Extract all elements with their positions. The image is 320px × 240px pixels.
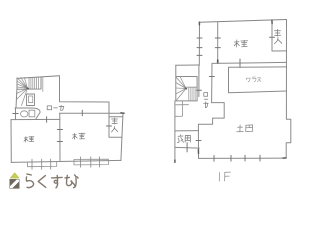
room1 top wall xyxy=(11,118,60,120)
ticks washitsu left wall xyxy=(215,38,220,48)
oshiire door tick xyxy=(106,125,111,127)
logo text rakusumu xyxy=(26,174,78,188)
label doma xyxy=(237,125,253,132)
terrace room xyxy=(229,67,287,93)
toilet room walls xyxy=(15,108,40,120)
wire top wall right plan xyxy=(200,20,287,23)
oshiire left wall upper xyxy=(108,102,110,117)
dark joint blobs xyxy=(27,20,286,162)
washitsu bottom wall xyxy=(212,62,287,63)
corridor door tick xyxy=(81,110,83,116)
doma zigzag boundary xyxy=(198,103,224,159)
wire top wall xyxy=(17,76,60,79)
genkan box xyxy=(175,131,199,149)
wire left wall room1 xyxy=(10,120,12,163)
outer left wall lower xyxy=(174,101,176,162)
corridor upper wall xyxy=(60,76,110,102)
wire left wall stair/toilet xyxy=(15,89,18,108)
logo house icon xyxy=(10,173,19,189)
lobby top wall xyxy=(176,64,200,66)
bottom wall right plan xyxy=(199,157,287,159)
label oshiire left plan (vertical) xyxy=(112,118,118,132)
tick genkan right wall xyxy=(196,140,201,142)
corridor right wall right plan xyxy=(211,63,213,102)
label washitsu left room2 xyxy=(73,133,86,139)
wire lobby left wall xyxy=(175,65,177,76)
label washitsu left room1 xyxy=(24,137,34,143)
left outer wall upper xyxy=(198,22,200,65)
staircase box left plan xyxy=(17,77,43,105)
window band bottom left xyxy=(28,159,57,169)
ticks wall between rooms xyxy=(57,130,62,142)
label 1F xyxy=(219,172,230,181)
wall between rooms xyxy=(59,119,61,160)
door tick room1 top xyxy=(46,117,48,122)
washbasin xyxy=(27,94,35,106)
staircase box right plan xyxy=(176,77,197,101)
oshiire tick right plan xyxy=(270,36,275,38)
label washitsu right plan xyxy=(234,40,247,47)
corridor lower wall xyxy=(60,112,124,114)
oshiire box right plan xyxy=(272,20,287,51)
toilet xyxy=(21,110,35,117)
label terrace xyxy=(246,77,260,82)
tick corridor right wall xyxy=(209,76,214,78)
wire jog wall xyxy=(59,113,61,119)
right wall with bump xyxy=(286,20,291,159)
oshiire box left plan xyxy=(109,117,123,138)
right wall left plan xyxy=(121,113,123,160)
tick corridor left wall xyxy=(196,89,201,91)
corridor left wall right plan xyxy=(198,65,200,97)
tick washitsu bottom xyxy=(239,59,241,68)
ticks left outer wall xyxy=(197,38,202,55)
door tick toilet xyxy=(13,113,18,115)
washitsu left wall xyxy=(217,22,219,64)
label oshiire right plan (vertical) xyxy=(275,29,282,44)
label rooka right plan (vertical) xyxy=(204,93,209,108)
step lines below stairs xyxy=(176,104,189,106)
label genkan xyxy=(178,135,191,143)
wire bottom wall left plan xyxy=(11,160,121,162)
tick genkan door xyxy=(186,143,188,152)
label rooka left plan (horizontal) xyxy=(47,105,64,110)
ticks bottom wall xyxy=(214,155,260,161)
window band bottom middle xyxy=(74,157,108,167)
